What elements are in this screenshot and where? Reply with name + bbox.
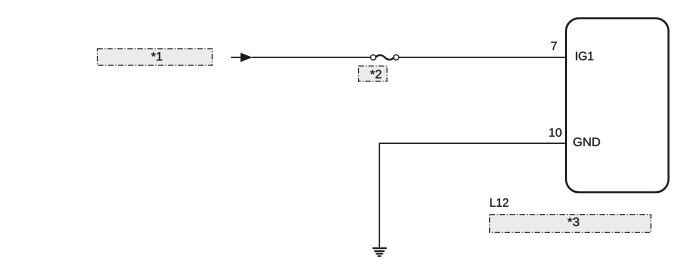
wire: fuse to ECU pin 7 (IG1 net) <box>396 56 566 58</box>
wire: ECU pin 10 to ground (horizontal + vertical run) <box>379 143 566 247</box>
fuse *2 <box>371 55 399 60</box>
ECU L12 (main body) <box>566 18 669 192</box>
pin 10 <box>549 128 561 137</box>
node *1 (power source label box) <box>97 49 212 66</box>
wire: power feed arrow tail <box>231 56 242 58</box>
wire: arrow to fuse <box>252 56 373 58</box>
ground <box>373 248 387 256</box>
node *3 (ECU name label box) <box>490 215 651 233</box>
pin label IG1 <box>576 52 593 61</box>
value label *2 (fuse label box) <box>359 66 388 81</box>
arrow head (power feed direction) <box>241 53 253 62</box>
pin 7 <box>551 42 557 50</box>
component label L12 <box>490 198 508 206</box>
pin label GND <box>573 138 600 147</box>
